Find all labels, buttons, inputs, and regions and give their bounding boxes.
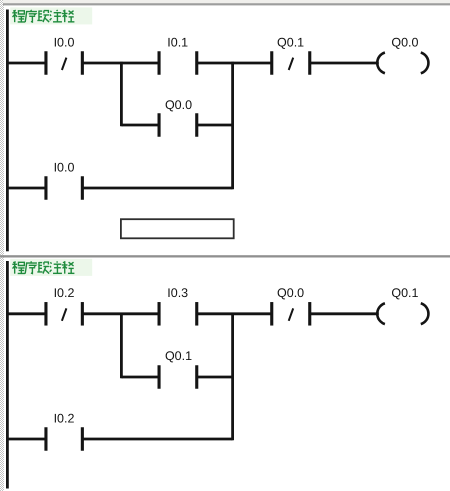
wire branch drop network 2 (120, 313, 123, 379)
left power rail network 1 (6, 10, 9, 252)
network 1 comment highlight (10, 7, 92, 24)
svg-text:I0.0: I0.0 (54, 35, 75, 49)
wire I0.0 to I0.1 (82, 62, 159, 65)
contact I0.2 normally closed (44, 302, 84, 326)
toolbar edge (3, 0, 450, 5)
network 2 comment highlight (10, 259, 92, 276)
contact Q0.0 normally closed (270, 302, 311, 326)
svg-text:I0.2: I0.2 (54, 286, 75, 300)
svg-text:Q0.1: Q0.1 (391, 286, 418, 300)
network 1 comment text 程序段注释 (12, 10, 74, 22)
wire I0.2 to I0.3 (82, 312, 159, 315)
svg-text:I0.2: I0.2 (54, 412, 75, 426)
network 2 comment text 程序段注释 (12, 261, 74, 273)
contact I0.0 normally closed (44, 51, 84, 75)
svg-text:Q0.0: Q0.0 (391, 35, 418, 49)
wire merge vertical network 2 (231, 313, 234, 441)
wire rail to I0.2 (6, 312, 46, 315)
coil Q0.1 (377, 303, 428, 324)
wire Q0.1 to coil (310, 62, 379, 65)
svg-text:Q0.1: Q0.1 (165, 349, 192, 363)
wire merge vertical (231, 62, 234, 190)
contact I0.1 normally open (158, 51, 199, 75)
coil Q0.0 (377, 53, 428, 74)
wire Q0.0 to coil (310, 312, 379, 315)
left margin (0, 0, 4, 491)
wire branch right (197, 124, 233, 127)
wire rail to I0.2 second (6, 438, 46, 441)
svg-text:Q0.0: Q0.0 (165, 98, 192, 112)
wire I0.3 to Q0.0 (197, 312, 272, 315)
left power rail network 2 (6, 261, 9, 489)
network separator (0, 255, 450, 257)
wire branch drop (120, 62, 123, 127)
wire I0.2 second to merge (82, 438, 232, 441)
wire rail to I0.0 second (6, 187, 46, 190)
contact I0.3 normally open (158, 302, 199, 326)
wire branch left (121, 124, 158, 127)
svg-text:Q0.1: Q0.1 (277, 35, 304, 49)
svg-text:Q0.0: Q0.0 (277, 286, 304, 300)
contact Q0.0 normally open (158, 113, 199, 137)
wire branch right network 2 (197, 376, 233, 379)
comment box network 1 (121, 219, 234, 238)
wire I0.1 to Q0.1 (197, 62, 272, 65)
contact Q0.1 normally closed (270, 51, 311, 75)
wire branch left network 2 (121, 376, 158, 379)
contact I0.0 second normally open (44, 176, 84, 200)
contact Q0.1 normally open (158, 365, 199, 389)
contact I0.2 second normally open (44, 427, 84, 451)
svg-text:I0.3: I0.3 (167, 286, 188, 300)
svg-text:I0.0: I0.0 (54, 161, 75, 175)
wire I0.0 second to merge (82, 187, 232, 190)
wire rail to I0.0 (6, 62, 46, 65)
svg-text:I0.1: I0.1 (167, 35, 188, 49)
